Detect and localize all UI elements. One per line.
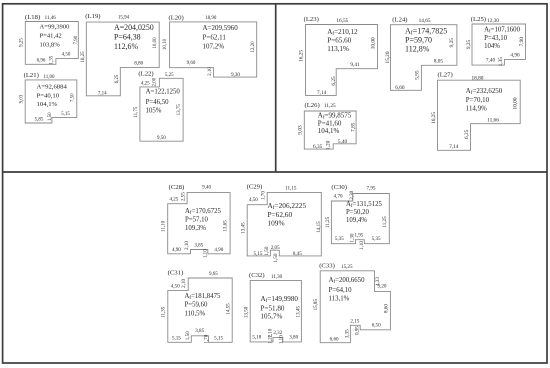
svg-text:7,14: 7,14 [449, 144, 459, 150]
svg-text:9,25: 9,25 [449, 38, 455, 48]
svg-text:6,25: 6,25 [115, 74, 120, 83]
svg-text:113,1%: 113,1% [327, 45, 349, 53]
svg-text:4,90: 4,90 [172, 247, 181, 253]
svg-text:5,40: 5,40 [338, 139, 348, 145]
svg-text:1,10: 1,10 [203, 249, 209, 258]
svg-text:P=51,80: P=51,80 [261, 304, 285, 312]
svg-text:1,10: 1,10 [278, 335, 284, 344]
svg-text:1,50: 1,50 [264, 246, 270, 255]
svg-text:1,70: 1,70 [261, 191, 267, 200]
svg-text:1,30: 1,30 [349, 233, 355, 242]
shape L21 outline [25, 80, 77, 123]
svg-text:11,00: 11,00 [43, 75, 55, 80]
svg-text:11,30: 11,30 [271, 274, 283, 280]
svg-text:2,30: 2,30 [349, 190, 355, 199]
svg-text:A=204,0250: A=204,0250 [114, 23, 154, 32]
svg-text:16,25: 16,25 [81, 51, 86, 63]
svg-text:1,95: 1,95 [354, 232, 363, 238]
svg-text:11,35: 11,35 [161, 306, 167, 318]
svg-text:3,85: 3,85 [194, 243, 203, 249]
svg-text:7,95: 7,95 [367, 186, 376, 192]
svg-text:7,90: 7,90 [519, 37, 525, 47]
svg-text:11,10: 11,10 [161, 220, 167, 232]
svg-text:1,50: 1,50 [273, 253, 279, 262]
svg-text:4,50: 4,50 [249, 197, 258, 203]
svg-text:15,85: 15,85 [313, 299, 319, 311]
svg-text:15,94: 15,94 [118, 16, 130, 21]
horizontal divider [3, 171, 547, 173]
svg-text:5,25: 5,25 [165, 73, 174, 78]
svg-text:P=43,10: P=43,10 [484, 35, 508, 42]
svg-text:P=62,11: P=62,11 [203, 34, 227, 42]
svg-text:14,55: 14,55 [225, 303, 231, 315]
svg-text:(C31): (C31) [168, 270, 184, 277]
svg-text:P=65,60: P=65,60 [327, 37, 351, 45]
svg-text:4,90: 4,90 [510, 52, 520, 58]
svg-text:(L27): (L27) [438, 71, 453, 78]
svg-text:109%: 109% [268, 218, 285, 227]
svg-text:5,18: 5,18 [252, 335, 261, 341]
svg-text:2,15: 2,15 [350, 318, 359, 324]
shape C28 outline [168, 193, 230, 254]
svg-text:4,50: 4,50 [171, 283, 180, 289]
shape C32 outline [250, 280, 301, 342]
svg-text:11,66: 11,66 [487, 117, 499, 123]
svg-text:9,41: 9,41 [350, 62, 360, 68]
svg-text:(C33): (C33) [319, 262, 335, 269]
svg-text:1,50: 1,50 [185, 331, 191, 340]
svg-text:7,14: 7,14 [98, 91, 107, 96]
svg-text:9,40: 9,40 [202, 185, 211, 191]
svg-text:2,55: 2,55 [180, 192, 186, 201]
svg-text:104,1%: 104,1% [37, 101, 58, 108]
svg-text:A=122,1250: A=122,1250 [146, 89, 181, 96]
svg-text:5,95: 5,95 [415, 70, 421, 80]
svg-text:16,25: 16,25 [299, 50, 305, 62]
shape L19 outline [86, 22, 159, 96]
svg-text:9,25: 9,25 [20, 38, 25, 47]
svg-text:12,20: 12,20 [251, 41, 256, 53]
svg-text:112,8%: 112,8% [405, 45, 430, 54]
svg-text:1,10: 1,10 [359, 241, 365, 250]
svg-text:Af=210,12: Af=210,12 [327, 28, 358, 37]
svg-text:9,03: 9,03 [298, 125, 304, 135]
svg-text:11,75: 11,75 [134, 106, 139, 118]
svg-text:(L21): (L21) [24, 72, 39, 79]
svg-text:3,85: 3,85 [195, 328, 204, 334]
svg-text:A=99,3900: A=99,3900 [40, 24, 71, 31]
shape C31 outline [168, 278, 232, 342]
svg-text:11,25: 11,25 [382, 216, 388, 228]
svg-text:4,90: 4,90 [214, 247, 223, 253]
svg-text:5,35: 5,35 [372, 236, 381, 242]
svg-text:5,35: 5,35 [335, 236, 344, 242]
svg-text:3,80: 3,80 [289, 335, 298, 341]
svg-text:4,25: 4,25 [169, 197, 178, 203]
svg-text:105,7%: 105,7% [261, 312, 283, 320]
svg-text:6,96: 6,96 [37, 59, 46, 64]
svg-text:11,46: 11,46 [45, 16, 57, 21]
svg-text:7,50: 7,50 [70, 93, 75, 102]
svg-text:6,50: 6,50 [372, 322, 381, 328]
svg-text:5,15: 5,15 [61, 112, 70, 117]
shape L25 outline [472, 24, 526, 65]
svg-text:11,15: 11,15 [285, 186, 297, 192]
svg-text:P=64,38: P=64,38 [114, 33, 141, 42]
svg-text:18,90: 18,90 [205, 16, 217, 21]
svg-text:2,10: 2,10 [184, 241, 190, 250]
svg-text:4,70: 4,70 [334, 193, 343, 199]
svg-text:P=64,10: P=64,10 [329, 287, 353, 294]
svg-text:16,25: 16,25 [431, 112, 437, 124]
svg-text:P=46,50: P=46,50 [146, 99, 170, 106]
shape L22 outline [140, 78, 183, 141]
svg-text:5,15: 5,15 [254, 251, 263, 257]
svg-text:2,32: 2,32 [273, 330, 282, 336]
svg-text:6,60: 6,60 [330, 336, 339, 342]
svg-text:P=70,10: P=70,10 [466, 97, 490, 104]
svg-text:(L19): (L19) [85, 13, 100, 20]
svg-text:1,22: 1,22 [268, 334, 274, 343]
svg-text:(C30): (C30) [331, 184, 347, 191]
svg-text:8,80: 8,80 [134, 61, 143, 66]
svg-text:2,00: 2,00 [152, 77, 157, 86]
svg-text:1,50: 1,50 [48, 112, 53, 121]
svg-text:(L24): (L24) [392, 16, 407, 23]
svg-text:1,35: 1,35 [49, 55, 54, 64]
svg-text:P=50,20: P=50,20 [346, 209, 370, 216]
vertical divider (top half) [275, 4, 277, 172]
svg-text:10,10: 10,10 [163, 38, 168, 50]
svg-text:6,60: 6,60 [395, 85, 405, 91]
svg-text:1,20: 1,20 [325, 140, 331, 150]
shape C30 outline [331, 194, 389, 244]
shape L26 outline [304, 111, 356, 149]
svg-text:10,00: 10,00 [153, 37, 158, 49]
svg-text:6,35: 6,35 [313, 144, 323, 150]
svg-text:103,8%: 103,8% [40, 42, 61, 49]
svg-text:9,50: 9,50 [157, 136, 166, 141]
svg-text:109,4%: 109,4% [346, 217, 367, 224]
svg-text:6,25: 6,25 [464, 129, 470, 139]
svg-text:9,60: 9,60 [187, 61, 196, 66]
svg-text:112,6%: 112,6% [114, 42, 138, 51]
svg-text:(C32): (C32) [249, 272, 265, 279]
svg-text:10,00: 10,00 [512, 97, 518, 109]
svg-text:P=41,42: P=41,42 [40, 33, 62, 40]
svg-text:105%: 105% [146, 108, 162, 115]
svg-text:14,15: 14,15 [316, 221, 322, 233]
svg-text:14,65: 14,65 [419, 18, 431, 24]
svg-text:7,14: 7,14 [317, 90, 327, 96]
svg-text:6,25: 6,25 [331, 76, 337, 86]
svg-text:4,50: 4,50 [62, 52, 71, 57]
svg-text:18,80: 18,80 [472, 75, 484, 81]
svg-text:13,50: 13,50 [244, 306, 250, 318]
svg-text:110,5%: 110,5% [185, 310, 206, 317]
svg-text:5,15: 5,15 [172, 335, 181, 341]
svg-text:1,70: 1,70 [204, 334, 210, 343]
svg-text:16,55: 16,55 [336, 18, 348, 24]
svg-text:9,65: 9,65 [209, 271, 218, 277]
svg-text:(C28): (C28) [169, 184, 185, 191]
svg-text:(L26): (L26) [305, 102, 320, 109]
svg-text:109,3%: 109,3% [185, 225, 206, 232]
svg-text:P=57,10: P=57,10 [185, 216, 209, 223]
shape L27 outline [438, 80, 521, 150]
svg-text:4,33: 4,33 [375, 277, 381, 286]
svg-text:2,05: 2,05 [271, 245, 280, 251]
svg-text:7,85: 7,85 [350, 122, 356, 132]
svg-text:113,1%: 113,1% [329, 295, 350, 302]
svg-text:P=40,10: P=40,10 [37, 92, 60, 99]
svg-text:9,03: 9,03 [20, 94, 25, 103]
svg-text:(L18): (L18) [25, 14, 40, 21]
shape C29 outline [247, 192, 321, 256]
svg-text:1,35: 1,35 [498, 57, 504, 67]
svg-text:P=59,60: P=59,60 [185, 302, 209, 309]
svg-text:104,1%: 104,1% [318, 127, 340, 135]
svg-text:3,35: 3,35 [345, 329, 351, 338]
svg-text:13,45: 13,45 [241, 222, 247, 234]
svg-text:5,85: 5,85 [35, 118, 44, 123]
shape L20 outline [170, 22, 257, 77]
svg-text:7,40: 7,40 [486, 58, 496, 64]
svg-text:P=59,70: P=59,70 [405, 36, 432, 45]
svg-text:11,25: 11,25 [324, 103, 336, 109]
svg-text:2,10: 2,10 [208, 67, 213, 76]
svg-text:13,65: 13,65 [223, 220, 229, 232]
svg-text:(L23): (L23) [304, 16, 319, 23]
shape L18 outline [25, 22, 78, 65]
shape C33 outline [320, 271, 390, 343]
svg-text:8,60: 8,60 [383, 304, 389, 313]
svg-text:(L25): (L25) [471, 16, 486, 23]
svg-text:15,25: 15,25 [341, 264, 353, 270]
svg-text:A=92,6884: A=92,6884 [37, 84, 68, 91]
shape L24 outline [391, 25, 457, 91]
shape L23 outline [306, 25, 378, 96]
svg-text:5,15: 5,15 [214, 336, 223, 342]
svg-text:0,95: 0,95 [355, 326, 361, 335]
svg-text:15,20: 15,20 [385, 51, 391, 63]
svg-text:7,90: 7,90 [74, 35, 79, 44]
svg-text:A=209,5960: A=209,5960 [203, 24, 239, 32]
svg-text:(L20): (L20) [169, 15, 184, 22]
svg-text:13,45: 13,45 [296, 306, 302, 318]
svg-text:12,30: 12,30 [487, 18, 499, 24]
svg-text:107,2%: 107,2% [203, 43, 225, 51]
svg-text:114,9%: 114,9% [466, 106, 487, 113]
svg-text:9,30: 9,30 [231, 73, 240, 78]
svg-text:10,00: 10,00 [371, 37, 377, 49]
svg-text:13,75: 13,75 [177, 104, 182, 116]
svg-text:(L22): (L22) [138, 70, 153, 77]
svg-text:9,25: 9,25 [466, 40, 472, 50]
svg-text:2,10: 2,10 [181, 278, 187, 287]
svg-text:104%: 104% [484, 43, 500, 50]
svg-text:8,05: 8,05 [434, 59, 444, 65]
svg-text:4,25: 4,25 [141, 81, 150, 86]
svg-text:8,45: 8,45 [293, 251, 302, 257]
svg-text:11,25: 11,25 [325, 216, 331, 228]
svg-text:(C29): (C29) [247, 184, 263, 191]
